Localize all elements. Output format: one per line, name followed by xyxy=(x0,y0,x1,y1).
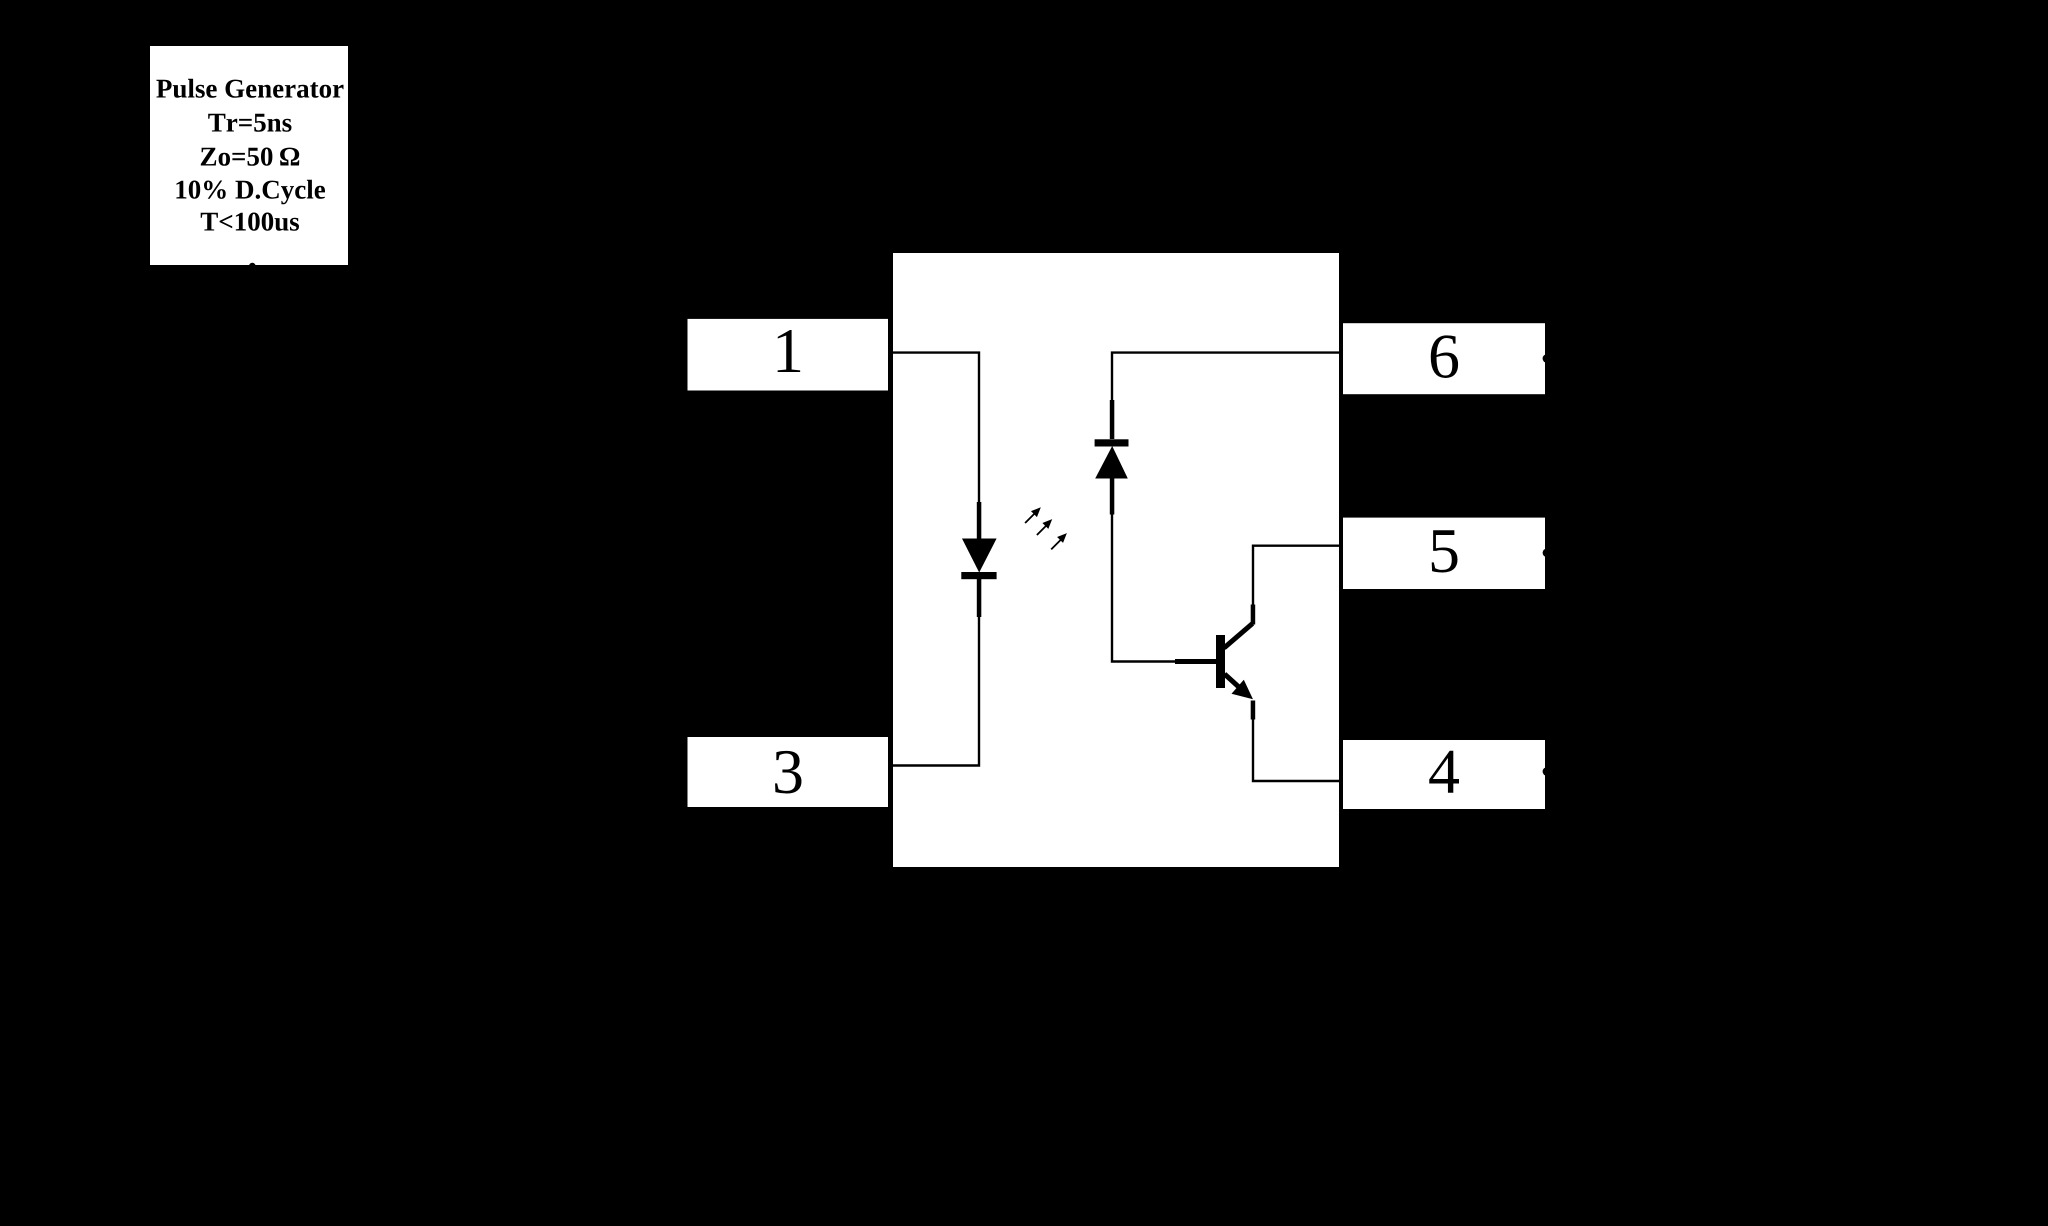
wire: LED cathode to pin3 xyxy=(890,617,979,766)
pulse generator PG1 box xyxy=(149,45,350,267)
wire: Q1 emitter to pin4 xyxy=(1253,719,1340,781)
terminal dot: pin5 external node xyxy=(1543,548,1552,557)
svg-text:4: 4 xyxy=(1428,736,1460,807)
wire: photodiode anode to Q1 base xyxy=(1112,514,1175,662)
wire: pin6 to photodiode cathode xyxy=(1112,353,1340,401)
terminal dot: pin4 external node xyxy=(1543,767,1552,776)
svg-text:6: 6 xyxy=(1428,321,1460,392)
LED D1 (emitter diode) xyxy=(961,502,996,617)
pin 5 pad xyxy=(1342,516,1547,590)
svg-text:1: 1 xyxy=(772,315,804,386)
svg-text:5: 5 xyxy=(1428,515,1460,586)
wire: Q1 collector to pin5 xyxy=(1253,546,1340,605)
photodiode D2 (base-collector diode) xyxy=(1095,400,1129,515)
pin 6 pad xyxy=(1342,322,1547,396)
pin 4 pad xyxy=(1342,739,1547,811)
pin 3 pad xyxy=(686,736,890,809)
phototransistor Q1 xyxy=(1175,605,1255,720)
pin 1 pad xyxy=(686,317,890,392)
light emission arrows xyxy=(1025,509,1065,550)
optocoupler U1 package outline xyxy=(892,252,1341,869)
wire: pin1 to LED anode xyxy=(890,353,979,503)
svg-text:3: 3 xyxy=(772,736,804,807)
junction dot: pulse generator output node xyxy=(249,263,256,270)
pulse generator value labels xyxy=(156,79,343,231)
terminal dot: pin6 external node xyxy=(1543,354,1552,363)
